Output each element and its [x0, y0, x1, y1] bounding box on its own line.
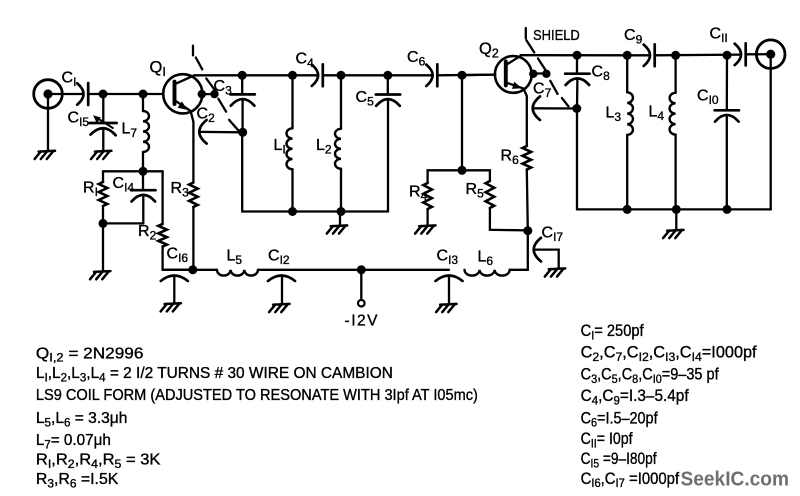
emitter Q2 — [507, 83, 527, 146]
wire C3 stem top — [241, 75, 243, 94]
capacitor C13 — [436, 276, 463, 282]
shield line Q2 seg4 — [562, 98, 569, 106]
svg-text:CI4: CI4 — [113, 175, 135, 195]
svg-text:LI,L2,L3,L4 = 2 I/2 TURNS # 3: LI,L2,L3,L4 = 2 I/2 TURNS # 30 WIRE ON C… — [36, 365, 393, 384]
node -12V tap — [357, 265, 366, 274]
wire bus2 — [577, 59, 771, 210]
svg-text:C2: C2 — [197, 106, 216, 126]
wire -12V bus — [163, 269, 217, 271]
ground (C17) — [549, 267, 565, 270]
svg-text:LI: LI — [274, 137, 286, 157]
capacitor C15 (variable) — [89, 122, 116, 125]
wire L1 stem bottom — [291, 169, 293, 211]
capacitor C14 — [131, 189, 155, 192]
svg-text:SHIELD: SHIELD — [533, 27, 580, 44]
wire L2 stem top — [340, 75, 342, 129]
resistor R6 — [523, 146, 532, 170]
collector Q2 — [507, 56, 521, 65]
wire C8 stem bottom — [576, 79, 579, 109]
wire rail1 C6 to Q2 — [437, 73, 495, 76]
svg-text:QI: QI — [150, 59, 166, 80]
resistor R2 — [158, 224, 167, 247]
svg-text:L3: L3 — [606, 105, 622, 125]
svg-text:Q2: Q2 — [479, 40, 499, 61]
wire R6 to node — [527, 170, 528, 231]
wire L4 stem bottom — [674, 135, 676, 210]
node (C15 tap) — [99, 90, 108, 99]
wire C10 stem bottom — [726, 116, 728, 210]
shield line Q2 seg2 — [538, 59, 546, 72]
emitter arrow Q2 — [512, 82, 522, 89]
node case wire left — [198, 90, 206, 98]
wire C3 stem bottom — [241, 99, 243, 132]
svg-text:C3,C5,C8,CI0=9–35 pf: C3,C5,C8,CI0=9–35 pf — [581, 365, 719, 385]
wire ground stub bus2 — [675, 209, 677, 229]
svg-text:L7: L7 — [122, 121, 138, 141]
node case wire Q2 right — [542, 70, 550, 78]
wire L7 to node A — [142, 152, 144, 171]
node L1 bus1 — [288, 207, 297, 216]
capacitor C3 — [230, 93, 254, 96]
svg-text:CI= 250pf: CI= 250pf — [581, 322, 644, 342]
svg-text:RI: RI — [83, 180, 98, 200]
wire emitter to R3 — [192, 122, 194, 183]
svg-text:CI6,CI7 =I000pf: CI6,CI7 =I000pf — [581, 470, 680, 490]
wire node A horizontal — [103, 170, 163, 172]
svg-text:CI2: CI2 — [268, 247, 290, 267]
node case wire right — [210, 90, 218, 98]
node case wire Q2 left — [529, 70, 537, 78]
wire input connector to ground — [47, 98, 49, 151]
capacitor C9 — [644, 45, 650, 66]
node R4/R5 — [458, 166, 467, 175]
wire C1 to node — [88, 93, 143, 95]
base bar Q2 — [504, 61, 508, 85]
resistor R4 — [423, 183, 432, 209]
case wire Q2 — [532, 72, 547, 74]
wire L4 stem top — [674, 55, 676, 93]
wire bus L5 to C13 — [258, 269, 449, 271]
capacitor C17 — [534, 238, 541, 262]
svg-text:C2,C7,CI2,CI3,CI4=I000pf: C2,C7,CI2,CI3,CI4=I000pf — [581, 344, 757, 364]
shield line Q2 seg3 — [550, 81, 557, 94]
shield line Q1 tick — [192, 46, 194, 56]
node (R1/C14 bottom) — [99, 219, 108, 228]
wire ground stub bus1 — [339, 212, 341, 226]
resistor R1 — [99, 182, 108, 206]
inductor L2 — [335, 129, 341, 169]
capacitor C7 — [533, 96, 540, 120]
shield line Q1 seg2 — [206, 79, 215, 91]
ground (C12) — [273, 303, 289, 306]
wire C11 to output — [746, 53, 771, 55]
svg-text:R3: R3 — [171, 180, 190, 200]
svg-text:C6: C6 — [407, 49, 426, 69]
input connector J1 — [34, 80, 63, 109]
wire C15 to ground — [102, 129, 104, 151]
wire C7 to node — [534, 107, 577, 109]
svg-text:C6=I.5–20pf: C6=I.5–20pf — [581, 409, 658, 429]
wire rail1 Q1 to C4 — [194, 74, 317, 76]
node C10 rail2 — [723, 51, 732, 60]
wire node A to R2 — [161, 171, 163, 224]
arrow of C15 — [98, 118, 113, 128]
resistor R3 — [189, 183, 198, 207]
svg-text:L5,L6 = 3.3μh: L5,L6 = 3.3μh — [36, 410, 127, 429]
svg-text:CII= I0pf: CII= I0pf — [581, 430, 633, 450]
capacitor C12 — [268, 276, 295, 282]
node C16/R3 bus — [188, 265, 197, 274]
svg-text:CI5: CI5 — [68, 109, 90, 129]
wire R5 to node — [490, 208, 528, 230]
wire C10 stem top — [726, 55, 729, 110]
svg-text:R5: R5 — [466, 181, 485, 201]
wire base Q2 — [462, 73, 495, 76]
inductor L7 — [143, 111, 149, 152]
wire C14 bottom — [142, 195, 144, 223]
case wire Q1 — [202, 93, 215, 95]
svg-text:L2: L2 — [316, 137, 332, 157]
capacitor C4 — [312, 65, 318, 86]
node L4 bus2 — [672, 205, 681, 214]
node L2 bus1 — [337, 207, 346, 216]
capacitor C8 — [565, 72, 589, 75]
inductor L5 — [217, 270, 258, 276]
node L4 rail2 — [671, 51, 680, 60]
node C8 rail2 — [573, 51, 582, 60]
node R5/R6/C17 — [523, 226, 532, 235]
node A (L7/R1/C14/R2) — [139, 167, 148, 176]
svg-text:C3: C3 — [214, 78, 233, 98]
wire C17 to ground — [535, 250, 559, 268]
svg-text:C5: C5 — [356, 89, 375, 109]
ground (bus2) — [667, 229, 683, 232]
wire Q2 feed down — [461, 75, 463, 170]
wire R1 bottom to C14 bottom — [103, 222, 143, 224]
emitter Q1 — [176, 101, 194, 122]
capacitor C6 — [426, 65, 432, 86]
shield line Q2 tick — [525, 28, 527, 38]
inductor L6 — [465, 270, 510, 276]
svg-text:CI: CI — [62, 70, 77, 90]
wire C14 top — [142, 171, 144, 190]
svg-text:C9: C9 — [624, 27, 643, 47]
svg-text:QI,2 = 2N2996: QI,2 = 2N2996 — [36, 345, 143, 364]
node Q2 base feed — [458, 71, 467, 80]
wire -12V stub — [360, 270, 362, 300]
capacitor C1 — [77, 83, 83, 104]
svg-text:CI7: CI7 — [542, 225, 564, 245]
wire to R4 — [428, 170, 462, 183]
emitter arrow Q1 — [178, 101, 188, 110]
inductor L1 — [286, 128, 292, 169]
node L2 rail — [337, 71, 346, 80]
wire R1 to bottom node — [102, 206, 104, 223]
shield line Q1 seg4 — [229, 120, 239, 131]
svg-text:RI,R2,R4,R5 = 3K: RI,R2,R4,R5 = 3K — [36, 452, 161, 471]
transistor Q2 circle — [495, 56, 532, 93]
wire C5 stem bottom — [387, 100, 389, 212]
node C8/C7 — [572, 104, 581, 113]
wire rail2 Q2 to C9 — [521, 54, 650, 56]
wire node A to R1 — [102, 171, 104, 182]
inductor L3 — [627, 92, 633, 135]
svg-text:R3,R6 =I.5K: R3,R6 =I.5K — [36, 471, 119, 490]
capacitor C11 — [735, 44, 741, 65]
capacitor C5 — [376, 93, 400, 96]
wire C16 stem — [173, 276, 175, 303]
wire bottom node to ground — [102, 223, 104, 270]
wire node to L7 — [142, 94, 144, 111]
svg-text:L4: L4 — [649, 104, 665, 124]
svg-text:C4: C4 — [296, 51, 315, 71]
node C5 rail — [383, 71, 392, 80]
svg-text:SeekIC.com: SeekIC.com — [681, 468, 790, 491]
svg-text:CI6: CI6 — [167, 246, 189, 266]
node L3 rail2 — [623, 51, 632, 60]
ground (R4) — [419, 224, 435, 227]
svg-text:CI0: CI0 — [697, 88, 719, 108]
svg-text:L5: L5 — [227, 248, 243, 268]
resistor R5 — [486, 181, 495, 208]
capacitor C16 — [161, 276, 188, 282]
svg-text:C7: C7 — [533, 81, 552, 101]
wire L2 stem bottom — [340, 169, 342, 212]
wire L3 stem top — [626, 55, 628, 92]
node L1 rail — [288, 71, 297, 80]
node (L7 tap) — [139, 90, 148, 99]
shield line Q1 seg3 — [218, 99, 226, 112]
shield line Q1 seg1 — [196, 58, 203, 70]
ground (bus1) — [331, 224, 347, 227]
svg-text:R2: R2 — [138, 223, 157, 243]
wire C13 stem — [448, 276, 450, 303]
svg-text:L6: L6 — [478, 249, 494, 269]
wire bus1 — [242, 132, 388, 211]
node C3 rail — [238, 71, 247, 80]
node L3 bus2 — [623, 205, 632, 214]
capacitor C2 — [199, 120, 206, 144]
wire R2 to bus — [163, 247, 193, 270]
ground (C15) — [95, 150, 111, 153]
node C3/C2 — [238, 128, 247, 137]
wire L1 stem top — [291, 75, 293, 128]
wire C8 stem top — [576, 55, 578, 73]
svg-text:CII: CII — [710, 26, 728, 46]
inductor L4 — [670, 93, 676, 135]
wire input to C1 — [51, 93, 83, 95]
ground (C13) — [440, 303, 456, 306]
wire R4 to ground — [426, 209, 428, 225]
node C10 bus2 — [723, 205, 732, 214]
wire rail1 C4 to C6 — [323, 74, 432, 76]
collector Q1 — [176, 75, 195, 84]
wire R3 to bus — [192, 207, 194, 270]
svg-text:CI5 =9–I80pf: CI5 =9–I80pf — [581, 450, 657, 470]
wire rail2 C9 to C11 — [655, 53, 741, 56]
wire base Q1 — [143, 93, 163, 95]
wire to R5 — [462, 170, 490, 181]
ground (input connector) — [39, 150, 55, 153]
ground (C16) — [165, 302, 181, 305]
svg-text:LS9 COIL FORM (ADJUSTED TO: LS9 COIL FORM (ADJUSTED TO RESONATE WITH… — [36, 387, 478, 404]
svg-text:CI3: CI3 — [437, 247, 459, 267]
wire C2 to node — [201, 131, 243, 134]
wire C12 stem — [281, 276, 283, 303]
wire node to C15 — [102, 94, 104, 123]
capacitor C10 — [715, 109, 739, 112]
svg-text:C8: C8 — [592, 64, 611, 84]
svg-text:-I2V: -I2V — [345, 313, 379, 330]
shield line Q2 seg1 — [526, 40, 534, 52]
transistor Q1 circle — [163, 74, 202, 113]
svg-text:R6: R6 — [501, 148, 520, 168]
base bar Q1 — [173, 82, 177, 104]
wire L3 stem bottom — [626, 135, 628, 210]
terminal -12V — [358, 300, 365, 307]
ground (R1/C14) — [94, 270, 110, 273]
output connector J2 — [756, 40, 785, 69]
svg-text:C4,C9=I.3–5.4pf: C4,C9=I.3–5.4pf — [581, 387, 689, 407]
svg-text:L7= 0.07μh: L7= 0.07μh — [36, 432, 111, 451]
wire bus L6 corner — [510, 230, 528, 269]
wire C5 stem top — [387, 75, 389, 94]
